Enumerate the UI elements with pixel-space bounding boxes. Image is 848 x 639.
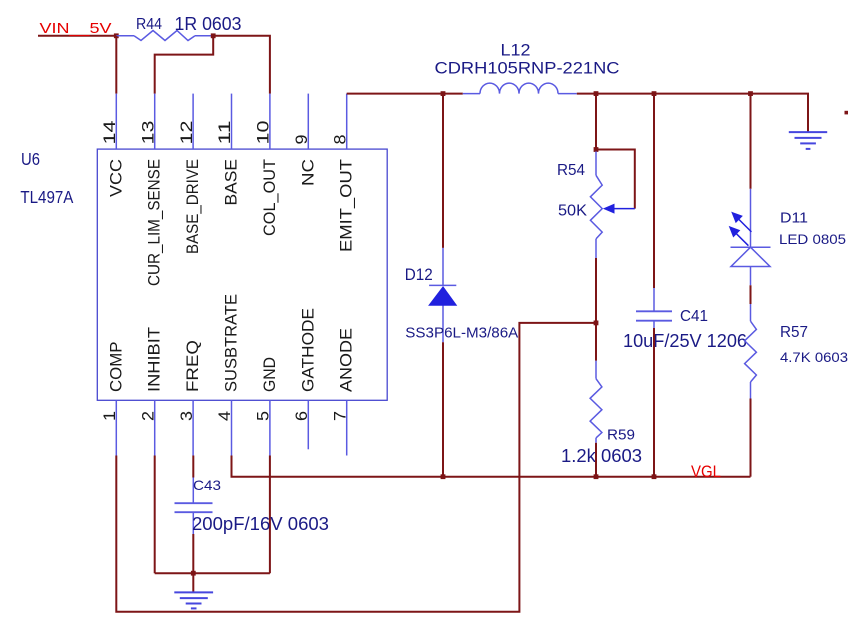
wire junction to R59: [595, 323, 597, 361]
svg-text:R57: R57: [780, 324, 808, 341]
svg-text:12: 12: [178, 121, 196, 145]
potentiometer R54: [590, 151, 602, 258]
wire VIN to pin14: [115, 36, 117, 94]
svg-text:CDRH105RNP-221NC: CDRH105RNP-221NC: [435, 59, 620, 78]
svg-text:L12: L12: [501, 41, 531, 60]
svg-text:VIN__5V: VIN__5V: [40, 20, 112, 37]
svg-text:D12: D12: [405, 266, 433, 284]
svg-text:C43: C43: [193, 477, 221, 493]
svg-text:BASE_DRIVE: BASE_DRIVE: [183, 159, 202, 254]
node junction C41 bottom: [652, 474, 657, 479]
svg-text:GND: GND: [260, 357, 279, 392]
ground bottom stem: [192, 573, 194, 591]
svg-text:14: 14: [101, 121, 119, 145]
wire VIN_5V horizontal: [38, 35, 116, 37]
svg-text:R59: R59: [607, 427, 635, 444]
svg-text:1R 0603: 1R 0603: [175, 14, 242, 34]
svg-text:R54: R54: [557, 162, 585, 179]
pin 4 stub: [231, 400, 233, 455]
wire R54 top: [595, 94, 597, 150]
pin 12 stub: [192, 94, 194, 150]
svg-text:200pF/16V 0603: 200pF/16V 0603: [192, 514, 329, 534]
svg-text:COL_OUT: COL_OUT: [260, 159, 279, 236]
wire C43 to ground: [192, 534, 194, 573]
svg-text:SUSBTRATE: SUSBTRATE: [222, 294, 241, 392]
capacitor C43: [175, 478, 213, 535]
svg-text:4.7K 0603: 4.7K 0603: [780, 349, 848, 365]
resistor R59: [590, 361, 602, 443]
node junction at R44 left: [114, 33, 119, 38]
svg-text:2: 2: [139, 411, 157, 421]
wire R44 to pin10: [213, 36, 270, 94]
svg-text:8: 8: [331, 135, 349, 145]
node junction C43 ground: [191, 571, 196, 576]
wire R59 to VGL rail: [595, 443, 597, 477]
LED D11: [731, 189, 771, 285]
node junction D12 top: [441, 91, 446, 96]
node junction R54 top: [594, 91, 599, 96]
svg-text:13: 13: [139, 121, 157, 145]
wire VGL rail: [232, 456, 751, 477]
node junction R59 bottom: [594, 474, 599, 479]
svg-text:INHIBIT: INHIBIT: [145, 327, 164, 392]
node junction at R44 right: [211, 33, 216, 38]
wire COMP pin1 feedback: [116, 323, 596, 612]
wire R54 to R59 junction: [595, 258, 597, 323]
node junction D11 top: [748, 91, 753, 96]
svg-text:C41: C41: [680, 308, 708, 325]
pin 10 stub: [269, 94, 271, 150]
svg-text:COMP: COMP: [106, 342, 125, 393]
wire rail to D11: [750, 94, 752, 189]
wire pin2 to pin5: [155, 572, 270, 574]
wire rail to D12: [442, 94, 444, 248]
svg-text:7: 7: [331, 411, 349, 421]
svg-text:6: 6: [293, 411, 311, 421]
svg-text:VCC: VCC: [106, 159, 125, 197]
svg-text:LED 0805: LED 0805: [779, 231, 846, 247]
node junction R54/R59/COMP: [594, 321, 599, 326]
wire R44 to pin13: [155, 36, 214, 94]
LED D11 arrows: [730, 213, 751, 246]
svg-text:TL497A: TL497A: [20, 187, 73, 207]
resistor R44: [116, 31, 213, 41]
svg-text:4: 4: [216, 411, 234, 421]
svg-text:5: 5: [255, 411, 273, 421]
pin 11 stub: [231, 94, 233, 150]
wire top rail inductor to ground corner: [577, 94, 808, 132]
svg-text:10uF/25V 1206: 10uF/25V 1206: [623, 331, 747, 351]
pin 6 stub: [307, 400, 309, 449]
node junction R54 wiper loop: [594, 147, 599, 152]
node junction D12 bottom: [441, 474, 446, 479]
svg-text:NC: NC: [298, 159, 317, 186]
svg-text:VGL: VGL: [691, 463, 721, 481]
pin 5 stub: [269, 400, 271, 455]
svg-text:SS3P6L-M3/86A: SS3P6L-M3/86A: [405, 326, 518, 342]
wire D11 to R57: [750, 285, 752, 304]
ground bottom: [174, 592, 213, 608]
pin 7 stub: [346, 400, 348, 455]
wire R54 wiper loop: [596, 150, 635, 209]
resistor R57: [745, 304, 757, 399]
svg-text:D11: D11: [780, 210, 808, 227]
wire top rail EMIT_OUT to inductor: [347, 93, 463, 95]
wire D12 to VGL rail: [442, 342, 444, 476]
pin 3 stub: [192, 400, 194, 455]
diode D12 triangle: [429, 287, 456, 305]
svg-text:10: 10: [255, 121, 273, 145]
diode D12: [429, 248, 456, 342]
wire INHIBIT pin2 down: [154, 456, 156, 574]
svg-text:BASE: BASE: [222, 159, 241, 206]
pin 13 stub: [154, 94, 156, 150]
wire C41 to VGL rail: [653, 328, 655, 477]
pin 14 stub: [115, 94, 117, 150]
svg-text:1: 1: [101, 411, 119, 421]
svg-text:U6: U6: [21, 149, 40, 169]
svg-text:EMIT_OUT: EMIT_OUT: [337, 159, 356, 252]
wire GND pin5 down: [269, 456, 271, 574]
svg-text:50K: 50K: [558, 203, 588, 220]
svg-text:9: 9: [293, 135, 311, 145]
potentiometer R54 wiper arrow: [603, 204, 635, 214]
op-amp U6 IC body TL497A: [97, 149, 387, 400]
inductor L12: [463, 83, 577, 94]
node junction C41 top: [652, 91, 657, 96]
pin 8 stub: [346, 94, 348, 150]
off-page connector right edge: [845, 111, 848, 115]
ground top right: [789, 132, 827, 149]
wire R57 to VGL rail: [750, 399, 752, 477]
svg-text:3: 3: [178, 411, 196, 421]
svg-text:ANODE: ANODE: [337, 328, 356, 392]
svg-text:CUR_LIM_SENSE: CUR_LIM_SENSE: [145, 159, 164, 286]
svg-text:1.2k 0603: 1.2k 0603: [561, 446, 642, 466]
svg-text:GATHODE: GATHODE: [298, 308, 317, 392]
wire FREQ pin3 to C43: [192, 456, 194, 478]
svg-text:FREQ: FREQ: [183, 340, 202, 392]
svg-text:R44: R44: [136, 16, 162, 33]
svg-text:11: 11: [216, 121, 234, 145]
pin 1 stub: [115, 400, 117, 455]
pin 9 stub: [307, 94, 309, 150]
pin 2 stub: [154, 400, 156, 455]
capacitor C41: [636, 288, 672, 328]
wire rail to C41: [653, 94, 655, 288]
